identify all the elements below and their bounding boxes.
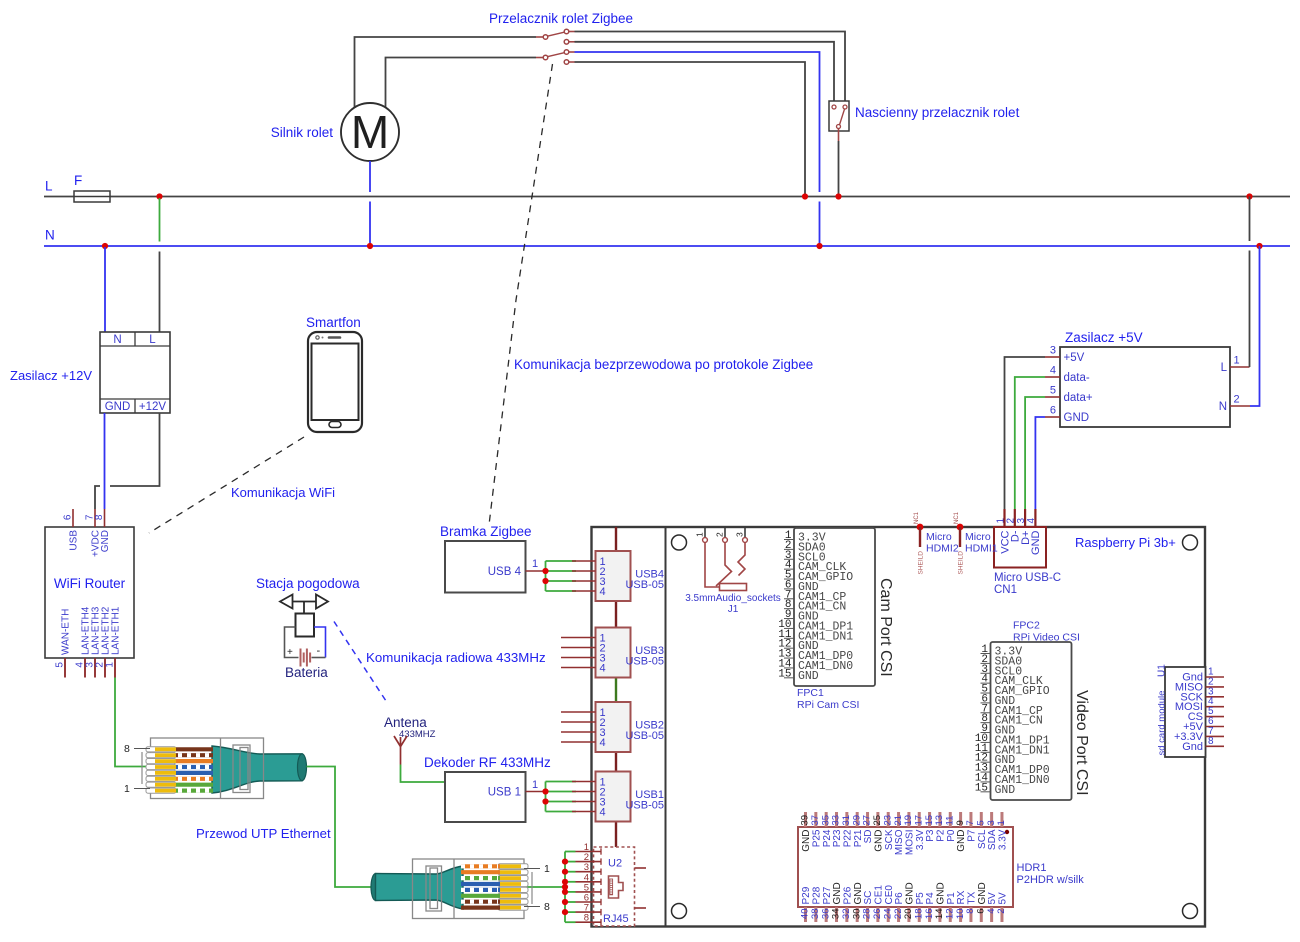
svg-text:RJ45: RJ45 — [603, 913, 629, 925]
svg-text:SD: SD — [863, 830, 874, 844]
svg-text:U2: U2 — [608, 858, 622, 870]
net L mains line — [44, 179, 1290, 197]
svg-text:+12V: +12V — [139, 401, 167, 413]
svg-text:20: 20 — [903, 909, 914, 920]
svg-text:16: 16 — [924, 909, 935, 920]
svg-text:36: 36 — [820, 909, 831, 920]
svg-text:24: 24 — [882, 909, 893, 920]
svg-text:SC: SC — [863, 891, 874, 905]
wire motor to N — [369, 161, 371, 246]
svg-text:34: 34 — [831, 909, 842, 920]
svg-text:RX: RX — [956, 890, 967, 904]
usb port USB1 — [572, 772, 664, 822]
router top pin stubs 6 7 8 — [63, 509, 112, 557]
svg-text:L: L — [1221, 362, 1228, 374]
svg-text:32: 32 — [841, 909, 852, 920]
svg-text:P7: P7 — [967, 829, 978, 842]
svg-text:U1: U1 — [1157, 664, 1168, 677]
motor M Silnik rolet — [271, 103, 399, 161]
svg-text:SCL: SCL — [977, 829, 988, 849]
svg-text:3.3V: 3.3V — [998, 829, 1009, 850]
wire rj45 plug1 to plug2 — [307, 767, 372, 888]
svg-text:Micro USB-C: Micro USB-C — [994, 572, 1061, 584]
svg-text:22: 22 — [893, 909, 904, 920]
RF decoder Dekoder RF 433MHz — [424, 755, 551, 822]
svg-text:14: 14 — [934, 909, 945, 920]
svg-text:P27: P27 — [822, 886, 833, 904]
svg-text:35: 35 — [820, 815, 831, 826]
svg-text:38: 38 — [810, 909, 821, 920]
audio jack J1 3.5mm sockets — [685, 527, 781, 615]
svg-text:USB 4: USB 4 — [488, 566, 522, 578]
svg-text:GND: GND — [873, 830, 884, 852]
svg-text:Zasilacz +12V: Zasilacz +12V — [10, 368, 92, 383]
dashed 433MHz radio link — [334, 622, 546, 705]
svg-text:L: L — [45, 179, 53, 194]
rj45 jack U2 — [594, 847, 647, 926]
wire SW1 throw B to wall switch — [575, 42, 835, 104]
wire PSU5 data+ to CN1 D+ — [1025, 397, 1045, 509]
fuse F — [74, 173, 110, 202]
svg-text:P2: P2 — [936, 829, 947, 842]
router bottom pin stubs 5 4 3 2 1 — [55, 606, 122, 677]
svg-text:5: 5 — [1050, 385, 1056, 397]
svg-text:WiFi Router: WiFi Router — [54, 576, 126, 591]
svg-text:SHEILD: SHEILD — [918, 551, 925, 575]
gpio header HDR1 P2HDR — [798, 827, 1084, 907]
svg-text:37: 37 — [810, 815, 821, 826]
green bus rj45 to U2 — [527, 852, 576, 923]
svg-text:GND: GND — [105, 401, 131, 413]
rj45 U2 pin stubs 1-8 — [576, 842, 602, 925]
svg-text:GND: GND — [956, 830, 967, 852]
svg-text:RPi Cam CSI: RPi Cam CSI — [797, 699, 859, 711]
wire PSU12 GND to router pin8 — [104, 413, 106, 509]
svg-text:SDA: SDA — [987, 829, 998, 850]
label Przelacznik rolet Zigbee — [489, 11, 633, 26]
hdr1 top pins row — [800, 812, 1009, 855]
svg-text:39: 39 — [800, 815, 811, 826]
svg-text:13: 13 — [934, 815, 945, 826]
svg-text:1: 1 — [532, 558, 538, 570]
svg-text:P0: P0 — [946, 829, 957, 842]
svg-text:25: 25 — [872, 815, 883, 826]
svg-text:33: 33 — [831, 815, 842, 826]
svg-text:9: 9 — [955, 820, 966, 825]
svg-text:+: + — [287, 647, 293, 658]
svg-text:15: 15 — [924, 815, 935, 826]
wire PSU5 data- to CN1 D- — [1015, 377, 1045, 509]
usb power chain segments — [615, 527, 617, 847]
svg-text:data-: data- — [1064, 372, 1090, 384]
svg-text:2: 2 — [1234, 394, 1240, 406]
svg-text:RPi Video CSI: RPi Video CSI — [1013, 632, 1080, 644]
svg-text:GND: GND — [977, 882, 988, 904]
svg-text:P6: P6 — [894, 892, 905, 905]
wire motor right to switch SW2 — [386, 58, 537, 109]
svg-text:CE0: CE0 — [884, 885, 895, 905]
svg-text:Raspberry Pi 3b+: Raspberry Pi 3b+ — [1075, 535, 1176, 550]
wire router LAN-ETH1 to rj45 plug 1 — [115, 678, 147, 767]
svg-text:3: 3 — [735, 532, 745, 537]
wires bramka to USB4 port — [542, 561, 576, 591]
svg-text:CN1: CN1 — [994, 584, 1017, 596]
svg-text:sd card module: sd card module — [1157, 691, 1168, 756]
svg-text:15: 15 — [778, 668, 791, 680]
micro hdmi2 pin — [914, 511, 959, 574]
svg-text:8: 8 — [1208, 736, 1214, 747]
svg-text:10: 10 — [955, 909, 966, 920]
svg-text:GND: GND — [1030, 530, 1042, 555]
svg-text:P26: P26 — [842, 886, 853, 904]
usb-c connector CN1 — [994, 509, 1061, 596]
svg-text:FPC2: FPC2 — [1013, 620, 1040, 632]
svg-text:HDMI1: HDMI1 — [965, 543, 998, 555]
svg-text:1: 1 — [544, 863, 550, 875]
svg-text:4: 4 — [1050, 365, 1056, 377]
svg-text:GND: GND — [801, 830, 812, 852]
svg-text:17: 17 — [913, 815, 924, 826]
svg-text:data+: data+ — [1064, 392, 1093, 404]
wire PSU12 +12V to router pin7 — [95, 413, 160, 509]
sd card module U1 — [1157, 664, 1225, 757]
svg-text:433MHZ: 433MHZ — [399, 729, 436, 740]
svg-text:P22: P22 — [842, 829, 853, 847]
wires dekoder to USB1 port — [542, 782, 576, 812]
svg-text:USB-05: USB-05 — [625, 579, 664, 591]
svg-text:5: 5 — [975, 820, 986, 825]
svg-text:8: 8 — [94, 514, 105, 520]
svg-text:Komunikacja WiFi: Komunikacja WiFi — [231, 485, 335, 500]
wire SW2 throw B to L — [575, 62, 806, 197]
junction dots on N — [102, 243, 1263, 249]
svg-text:8: 8 — [965, 909, 976, 914]
svg-text:15: 15 — [975, 782, 988, 794]
svg-text:Gnd: Gnd — [1182, 741, 1203, 753]
antenna Antena 433MHZ — [384, 715, 436, 765]
svg-text:USB: USB — [69, 530, 80, 551]
svg-text:Bramka Zigbee: Bramka Zigbee — [440, 524, 532, 539]
svg-text:3.3V: 3.3V — [915, 829, 926, 850]
fpc connector FPC1 RPi Cam CSI — [778, 528, 894, 711]
svg-text:GND: GND — [853, 882, 864, 904]
rj45 plug 2 with utp cable — [371, 859, 550, 919]
svg-text:Stacja pogodowa: Stacja pogodowa — [256, 576, 360, 591]
svg-text:40: 40 — [800, 909, 811, 920]
svg-text:MISO: MISO — [894, 829, 905, 855]
svg-text:23: 23 — [882, 815, 893, 826]
svg-text:P3: P3 — [925, 829, 936, 842]
svg-text:USB-05: USB-05 — [625, 730, 664, 742]
svg-text:Dekoder RF 433MHz: Dekoder RF 433MHz — [424, 755, 551, 770]
svg-text:2: 2 — [996, 909, 1007, 914]
svg-text:Cam Port CSI: Cam Port CSI — [877, 578, 894, 677]
svg-text:L: L — [149, 334, 156, 346]
svg-text:F: F — [74, 173, 82, 188]
svg-text:Silnik rolet: Silnik rolet — [271, 125, 334, 140]
svg-text:P1: P1 — [946, 892, 957, 905]
switch SW1 (zigbee rolet) — [536, 29, 575, 44]
svg-text:P28: P28 — [811, 886, 822, 904]
wire PSU5 GND to CN1 GND — [1035, 417, 1045, 509]
svg-text:J1: J1 — [728, 604, 739, 615]
svg-text:5V: 5V — [987, 892, 998, 905]
svg-text:6: 6 — [63, 514, 74, 520]
svg-text:HDR1: HDR1 — [1017, 862, 1047, 874]
fpc connector FPC2 RPi Video CSI — [975, 620, 1090, 801]
svg-text:6: 6 — [975, 909, 986, 914]
wall switch Nascienny przelacznik rolet — [829, 101, 1020, 131]
svg-text:N: N — [1219, 401, 1227, 413]
rj45 plug 1 with utp cable — [124, 738, 307, 799]
svg-text:19: 19 — [903, 815, 914, 826]
svg-text:7: 7 — [965, 820, 976, 825]
svg-text:P29: P29 — [801, 886, 812, 904]
svg-text:8: 8 — [544, 901, 550, 913]
mounting holes — [672, 535, 1198, 919]
label Przewod UTP Ethernet — [196, 826, 331, 841]
svg-text:1: 1 — [695, 532, 705, 537]
svg-text:8: 8 — [124, 743, 130, 755]
svg-text:2: 2 — [715, 532, 725, 537]
svg-text:LAN-ETH1: LAN-ETH1 — [111, 606, 122, 655]
battery Bateria — [285, 627, 329, 680]
svg-text:GND: GND — [936, 882, 947, 904]
usb port USB4 — [572, 551, 664, 601]
svg-text:M: M — [351, 106, 389, 158]
svg-text:N: N — [45, 228, 55, 243]
svg-text:P23: P23 — [832, 829, 843, 847]
svg-text:Przelacznik rolet Zigbee: Przelacznik rolet Zigbee — [489, 11, 633, 26]
svg-text:1: 1 — [532, 779, 538, 791]
weather station Stacja pogodowa — [256, 576, 360, 637]
svg-text:Nascienny przelacznik rolet: Nascienny przelacznik rolet — [855, 105, 1020, 120]
svg-text:GND: GND — [100, 530, 111, 552]
svg-text:26: 26 — [872, 909, 883, 920]
svg-text:-: - — [317, 645, 321, 657]
wire motor left to switch SW1 — [355, 37, 537, 107]
micro hdmi1 pin — [954, 511, 998, 574]
dashed wifi link — [149, 437, 335, 533]
svg-text:TX: TX — [967, 891, 978, 904]
power supply Zasilacz +5V — [1045, 330, 1250, 427]
wire PSU5 N to mains N — [1250, 246, 1260, 406]
svg-text:+5V: +5V — [1064, 352, 1085, 364]
svg-text:GND: GND — [798, 670, 819, 683]
svg-text:GND: GND — [832, 882, 843, 904]
svg-text:FPC1: FPC1 — [797, 687, 824, 699]
svg-text:11: 11 — [944, 816, 955, 826]
svg-text:USB-05: USB-05 — [625, 656, 664, 668]
svg-text:USB 1: USB 1 — [488, 787, 521, 799]
svg-text:GND: GND — [1064, 412, 1090, 424]
svg-text:Komunikacja radiowa 433MHz: Komunikacja radiowa 433MHz — [366, 650, 546, 665]
svg-text:P24: P24 — [822, 829, 833, 847]
svg-text:1: 1 — [1234, 355, 1240, 367]
svg-text:P2HDR w/silk: P2HDR w/silk — [1017, 874, 1085, 886]
svg-text:18: 18 — [913, 909, 924, 920]
wire SW2 throw A to N (blue) — [575, 52, 820, 246]
svg-text:GND: GND — [905, 882, 916, 904]
svg-text:NC1: NC1 — [954, 511, 960, 524]
wire wall switch to L — [838, 129, 840, 197]
svg-text:Zasilacz +5V: Zasilacz +5V — [1065, 330, 1143, 345]
svg-text:SHEILD: SHEILD — [958, 551, 965, 575]
raspberry pi 3b+ board outline — [592, 527, 1206, 927]
svg-text:3: 3 — [986, 820, 997, 825]
svg-text:HDMI2: HDMI2 — [926, 543, 959, 555]
svg-text:4: 4 — [600, 586, 606, 598]
svg-text:Antena: Antena — [384, 715, 427, 730]
svg-text:4: 4 — [600, 737, 606, 749]
usb port USB3 — [561, 628, 664, 678]
wifi router box — [45, 527, 134, 658]
svg-text:5: 5 — [55, 662, 66, 668]
svg-text:Komunikacja bezprzewodowa po p: Komunikacja bezprzewodowa po protokole Z… — [514, 357, 813, 372]
svg-text:1: 1 — [996, 820, 1007, 825]
svg-text:8: 8 — [584, 913, 589, 924]
power supply Zasilacz +12V — [10, 332, 170, 413]
svg-text:Micro: Micro — [965, 531, 991, 543]
svg-text:1: 1 — [124, 783, 130, 795]
hdr1 bottom pins row — [800, 882, 1009, 922]
svg-text:29: 29 — [851, 815, 862, 826]
svg-text:Video Port CSI: Video Port CSI — [1073, 690, 1090, 796]
svg-text:3.5mmAudio_sockets: 3.5mmAudio_sockets — [685, 593, 781, 604]
wire SW1 throw A to wall switch — [575, 32, 846, 105]
wire antenna to decoder — [401, 765, 446, 783]
zigbee gateway Bramka Zigbee — [440, 524, 546, 593]
dashed zigbee wireless link — [489, 64, 813, 525]
svg-text:12: 12 — [944, 909, 955, 920]
usb port USB2 — [561, 702, 664, 752]
svg-text:4: 4 — [600, 662, 606, 674]
svg-text:Micro: Micro — [926, 531, 952, 543]
svg-text:1: 1 — [105, 662, 116, 668]
svg-text:SCK: SCK — [884, 829, 895, 850]
svg-text:GND: GND — [995, 784, 1016, 797]
svg-text:N: N — [113, 334, 121, 346]
svg-text:4: 4 — [986, 909, 997, 914]
svg-text:6: 6 — [1050, 405, 1056, 417]
svg-text:21: 21 — [893, 815, 904, 826]
switch SW2 (zigbee rolet) — [536, 50, 575, 65]
wire PSU5 +5V to CN1 VCC — [1005, 357, 1046, 509]
smartphone Smartfon — [306, 315, 362, 432]
svg-text:30: 30 — [851, 909, 862, 920]
svg-text:3: 3 — [1050, 345, 1056, 357]
svg-text:P4: P4 — [925, 892, 936, 905]
svg-text:P21: P21 — [853, 829, 864, 847]
svg-text:CE1: CE1 — [873, 885, 884, 905]
svg-text:USB-05: USB-05 — [625, 800, 664, 812]
svg-text:NC1: NC1 — [914, 511, 920, 524]
wire L to PSU12 (green+grey) — [159, 198, 161, 332]
svg-text:Przewod UTP Ethernet: Przewod UTP Ethernet — [196, 826, 331, 841]
svg-text:28: 28 — [862, 909, 873, 920]
svg-text:31: 31 — [841, 815, 852, 826]
svg-text:4: 4 — [600, 806, 606, 818]
svg-text:5V: 5V — [998, 892, 1009, 905]
wire N to PSU12 — [104, 247, 106, 332]
svg-text:MOSI: MOSI — [905, 830, 916, 856]
svg-text:Bateria: Bateria — [285, 665, 328, 680]
net N mains line — [44, 228, 1290, 247]
svg-text:WAN-ETH: WAN-ETH — [61, 609, 72, 655]
svg-text:Smartfon: Smartfon — [306, 315, 361, 330]
svg-text:P5: P5 — [915, 892, 926, 905]
svg-text:27: 27 — [862, 815, 873, 826]
svg-text:P25: P25 — [811, 829, 822, 847]
junction dots on L — [156, 193, 1252, 199]
wire PSU5 L to mains L — [1249, 197, 1251, 368]
